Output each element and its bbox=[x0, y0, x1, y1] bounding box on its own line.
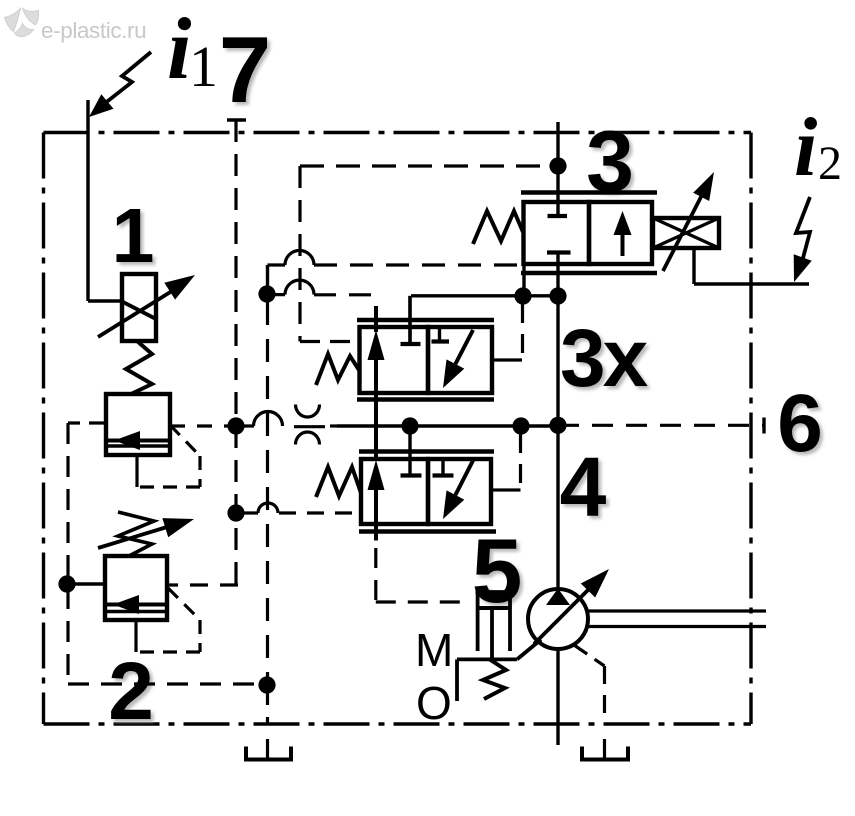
terminal tick of net 7 bbox=[227, 118, 246, 121]
svg-text:1: 1 bbox=[189, 34, 218, 99]
pilot dashed line y=166 (to valve 3 top node) bbox=[300, 164, 552, 167]
upper mid valve blocked port T (left box) bbox=[408, 296, 411, 344]
wire from net7 junction to hop (y=426) bbox=[236, 424, 254, 427]
pilot dashed line x=268 vertical bbox=[266, 302, 269, 685]
lower mid valve flow arrow line (above) bbox=[374, 426, 378, 461]
line hop over x=300 at y=265 bbox=[285, 251, 314, 266]
valve 1 proportional throttle body bbox=[122, 274, 156, 341]
dash after orifice y=426 bbox=[330, 424, 337, 427]
upper relief pilot loop vertical (dashed) bbox=[198, 456, 201, 487]
wire y=296 from upper-mid valve to valve 3 line bbox=[411, 294, 558, 297]
valve 2 right pilot diagonal (dashed) bbox=[168, 588, 200, 620]
lower mid valve right pilot stub bbox=[491, 488, 507, 491]
upper mid valve flow arrow line (above) bbox=[374, 306, 378, 332]
tank line into right tank bbox=[603, 739, 606, 760]
pump case drain dashed bbox=[574, 645, 605, 666]
svg-text:e-plastic.ru: e-plastic.ru bbox=[41, 18, 146, 43]
pilot corner riser x=268 (solid part) bbox=[266, 265, 269, 294]
svg-text:2: 2 bbox=[108, 646, 154, 737]
node junction at (558,425) bbox=[549, 417, 566, 434]
watermark logo e-plastic.ru bbox=[5, 9, 39, 37]
valve 3 top port line bbox=[556, 122, 559, 202]
pilot dashed line y=513 to lower mid valve bbox=[279, 511, 361, 514]
upper mid valve rail top bbox=[357, 318, 494, 322]
valve 1 spring bbox=[126, 341, 152, 394]
lower mid valve blocked port T (left box) bbox=[408, 426, 411, 476]
node junction at (558,166) bbox=[549, 157, 566, 174]
assembly 2 bottom dashed line bbox=[68, 682, 267, 685]
svg-text:3: 3 bbox=[586, 114, 634, 210]
wire from junction to valve 2 left port bbox=[67, 582, 105, 585]
pump drive shaft double line bbox=[587, 609, 766, 612]
upper mid valve spring bbox=[316, 354, 359, 385]
svg-text:M: M bbox=[415, 624, 453, 676]
upper mid valve right position box bbox=[428, 327, 492, 393]
valve 3 left-bottom corner stub to node bbox=[522, 264, 525, 296]
node junction at (523,296) bbox=[514, 287, 531, 304]
control arrow i1 (electric signal, zigzag arrow) bbox=[104, 52, 151, 104]
actuator 5 cylinder top cap bbox=[476, 590, 513, 594]
wire supply line to valve 1 (horizontal) bbox=[88, 299, 122, 302]
valve 3 solenoid adjustment arrow bbox=[663, 193, 703, 271]
valve 2 pilot loop vertical (dashed) bbox=[198, 620, 201, 652]
pilot dashed line net 6 bbox=[558, 424, 764, 427]
tank line into left tank bbox=[266, 739, 269, 760]
orifice restrictor on line y=426 bbox=[294, 425, 325, 428]
node junction on net7 at y=426 bbox=[227, 417, 244, 434]
svg-text:6: 6 bbox=[777, 378, 823, 469]
valve 3 spring bbox=[473, 211, 523, 244]
upper relief right port dashed line to net7 bbox=[170, 424, 236, 427]
valve 3 flow arrow (right box) bbox=[621, 233, 625, 256]
valve 3 blocked port T top bbox=[556, 202, 559, 216]
lower mid valve closing arrow (right box) bbox=[455, 461, 473, 496]
wire riser into upper mid valve top port bbox=[408, 296, 411, 344]
pilot line y=295 from junction (solid start) bbox=[267, 293, 285, 296]
pump flow triangle (up) bbox=[546, 589, 570, 606]
valve 2 internal flow arrow bbox=[105, 603, 166, 607]
upper mid valve left position box bbox=[360, 327, 429, 393]
node junction at (267,685) bbox=[258, 676, 275, 693]
svg-text:i: i bbox=[794, 101, 817, 194]
svg-text:3x: 3x bbox=[560, 313, 648, 404]
lower mid valve flow arrow head bbox=[368, 460, 385, 490]
tank symbol left bbox=[246, 747, 291, 760]
enclosure boundary right (dash-dot) bbox=[749, 133, 752, 725]
upper mid valve blocked port T (right box) bbox=[438, 327, 441, 342]
valve 3 rail bottom bbox=[521, 271, 657, 276]
line hop over x=268 at y=426 bbox=[254, 412, 283, 427]
valve 2 body square bbox=[105, 556, 167, 620]
node junction at (521,426) bbox=[512, 417, 529, 434]
node junction at (410,426) bbox=[401, 417, 418, 434]
line hop over x=300 at y=295 bbox=[285, 280, 314, 295]
lower mid valve left position box bbox=[361, 459, 428, 524]
valve 3 blocked port T bottom bbox=[547, 250, 571, 254]
upper mid valve flow arrow line (below) bbox=[374, 359, 378, 426]
upper mid valve rail bottom bbox=[357, 397, 494, 401]
upper mid valve closing arrow (right box) bbox=[455, 330, 473, 364]
lower mid valve blocked port T (right box) bbox=[441, 459, 444, 476]
wire supply line to valve 1 (vertical) bbox=[86, 100, 89, 301]
valve 1 adjustment arrow bbox=[98, 291, 172, 337]
terminal tick of net 6 bbox=[762, 418, 765, 434]
enclosure boundary left (dash-dot) bbox=[42, 133, 45, 725]
valve 3 proportional solenoid box bbox=[653, 218, 719, 248]
valve 3 solenoid X diagonal 1 bbox=[653, 218, 719, 248]
svg-text:1: 1 bbox=[112, 193, 155, 279]
lower mid valve spring bbox=[316, 467, 361, 497]
pilot dashed from net7 y=513 (start) bbox=[236, 511, 258, 514]
valve 2 bottom stub bbox=[134, 620, 137, 652]
pilot dashed line x=300 vertical bbox=[298, 166, 301, 342]
node junction on net7 at y=513 bbox=[227, 504, 244, 521]
actuator centering spring bbox=[483, 659, 506, 699]
pilot dashed line y=265 to valve 3 spring side bbox=[268, 263, 286, 266]
actuator link to pump bbox=[517, 640, 541, 660]
node junction at (67,584) bbox=[58, 575, 75, 592]
node junction at (267,294) bbox=[258, 285, 275, 302]
upper relief internal flow arrow bbox=[106, 439, 169, 443]
valve 3 solenoid X diagonal 2 bbox=[653, 218, 719, 248]
pilot dashed line y=341 to upper mid valve bbox=[300, 340, 356, 343]
actuator 5 piston bbox=[478, 606, 510, 610]
svg-text:7: 7 bbox=[219, 17, 271, 122]
lower mid valve rail bottom bbox=[359, 529, 496, 533]
upper relief internal line bbox=[106, 444, 169, 447]
wire main line x=558 (valve3 to gallery) bbox=[556, 296, 559, 426]
wire main gallery y=426 bbox=[337, 424, 558, 427]
wire from solenoid to i2 node bbox=[692, 248, 695, 284]
lower mid valve flow arrow line (below) bbox=[374, 489, 378, 541]
svg-text:2: 2 bbox=[818, 137, 842, 190]
upper relief left pilot port line (dashed) bbox=[68, 421, 106, 424]
lower mid valve right position box bbox=[428, 459, 491, 524]
pump variable displacement arrow bbox=[534, 586, 592, 644]
svg-text:4: 4 bbox=[560, 440, 607, 534]
pilot dashed line y=295 bbox=[314, 293, 381, 296]
pilot dashed from node (523,296) down bbox=[521, 304, 524, 360]
actuator 5 cylinder right wall bbox=[508, 592, 512, 651]
tank symbol right bbox=[582, 747, 628, 760]
line hop over x=268 at y=513 bbox=[258, 503, 278, 513]
pilot dashed from lower mid valve to actuator 5 bbox=[374, 548, 377, 602]
valve 3 rail top bbox=[521, 190, 657, 195]
wire below pump to boundary bbox=[556, 649, 559, 745]
upper relief right pilot diagonal (dashed) bbox=[170, 425, 200, 456]
pilot line from net7 to valve 2 right side (dashed) bbox=[167, 583, 238, 586]
pump 5 circle bbox=[528, 589, 588, 649]
upper relief pilot loop horizontal (dashed) bbox=[137, 485, 200, 488]
pilot dashed line x=68 (left of assembly 2) bbox=[66, 423, 69, 684]
upper mid valve flow arrow head bbox=[368, 330, 385, 360]
lower mid valve rail top bbox=[359, 449, 494, 453]
node junction at (558,296) bbox=[549, 287, 566, 304]
valve 2 spring adjustment arrow bbox=[98, 527, 167, 548]
valve 3 left position box bbox=[524, 202, 590, 264]
valve 2 pilot loop horizontal (dashed) bbox=[136, 650, 200, 653]
wire main line x=558 (gallery to pump) bbox=[556, 426, 559, 590]
valve 3 right position box bbox=[589, 202, 652, 264]
actuator 5 piston rod bbox=[490, 608, 494, 659]
valve 1 inner orifice diagonal bbox=[123, 302, 156, 319]
pilot net 7 vertical dashed line x=236 bbox=[234, 120, 237, 585]
upper relief bottom stub bbox=[135, 455, 138, 487]
valve 2 internal line bbox=[105, 610, 166, 613]
upper mid valve right pilot stub bbox=[492, 358, 522, 361]
actuator 5 cylinder left wall bbox=[476, 592, 480, 651]
enclosure boundary top (dash-dot) bbox=[44, 131, 752, 134]
enclosure boundary bottom (dash-dot) bbox=[44, 722, 752, 725]
valve 2 variable spring bbox=[118, 512, 154, 556]
valve pilot stage square (upper relief) bbox=[106, 394, 170, 455]
drain dashed line below junction to tank bbox=[266, 685, 269, 724]
pilot dashed from node (521,426) down bbox=[519, 434, 522, 490]
svg-text:O: O bbox=[416, 677, 452, 729]
control arrow i2 (electric signal, zigzag arrow) bbox=[796, 197, 810, 258]
actuator link bracket bbox=[457, 658, 517, 662]
